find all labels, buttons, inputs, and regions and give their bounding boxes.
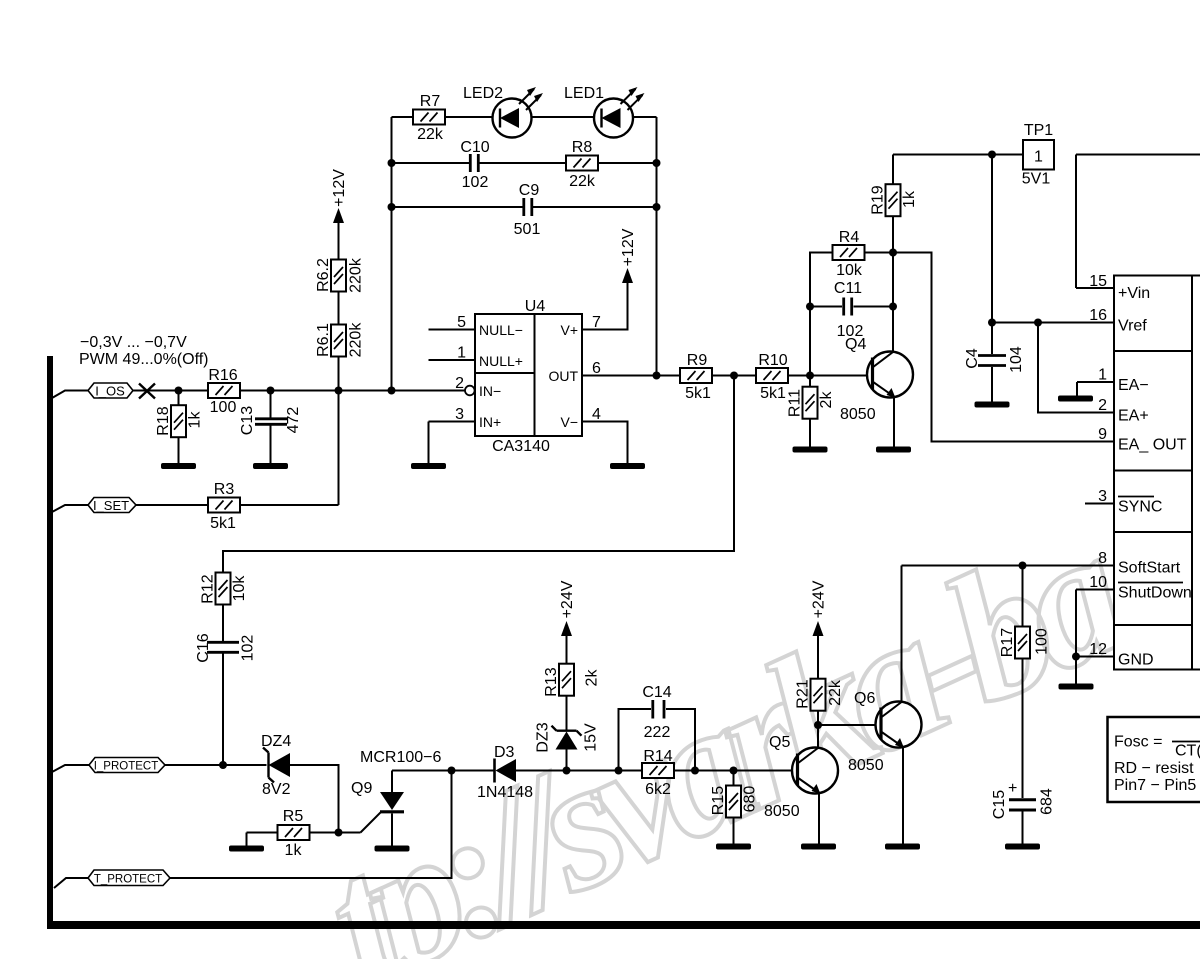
svg-text:+12V: +12V xyxy=(620,228,637,266)
ground pin3 xyxy=(411,463,446,469)
svg-text:222: 222 xyxy=(644,724,671,741)
wire Q6 base xyxy=(818,724,881,726)
svg-text:R16: R16 xyxy=(208,367,237,384)
svg-text:OUT: OUT xyxy=(548,368,578,384)
node junction left bus xyxy=(388,387,396,395)
resistor R7 xyxy=(413,110,445,125)
wire EA+ branch xyxy=(1038,323,1114,413)
ground R15 xyxy=(716,844,751,850)
svg-text:DZ3: DZ3 xyxy=(535,722,552,752)
svg-text:102: 102 xyxy=(240,635,257,662)
svg-text:1k: 1k xyxy=(285,842,303,859)
svg-text:102: 102 xyxy=(462,174,489,191)
svg-text:2: 2 xyxy=(1098,397,1107,414)
pin 6 OUT xyxy=(582,375,680,377)
IC U5 box xyxy=(1114,276,1200,670)
node I_OS flag xyxy=(52,383,133,398)
power +24V arrow (R21) xyxy=(813,621,824,636)
node junctions C9 row xyxy=(388,203,396,211)
capacitor C4 column xyxy=(978,155,1006,403)
wire Q4 emitter drop xyxy=(893,396,895,447)
pin 10 ShutDown xyxy=(1076,590,1114,657)
ground R18 xyxy=(161,463,196,469)
svg-text:TP1: TP1 xyxy=(1024,122,1053,139)
thyristor Q9 MCR100-6 xyxy=(361,771,405,847)
svg-text:R7: R7 xyxy=(420,93,441,110)
svg-text:8050: 8050 xyxy=(840,406,876,423)
note box Fosc xyxy=(1108,717,1200,802)
node junction R6.1/R3 xyxy=(335,387,343,395)
svg-text:V−: V− xyxy=(560,414,578,430)
svg-text:GND: GND xyxy=(1118,652,1154,669)
svg-text:R4: R4 xyxy=(839,229,860,246)
op-amp U4 xyxy=(475,314,582,436)
pin 1 NULL+ xyxy=(429,359,476,361)
resistor R15 xyxy=(726,771,741,845)
svg-text:IN−: IN− xyxy=(479,383,501,399)
pin 4 V- xyxy=(582,422,628,465)
pin 7 V+ xyxy=(582,282,628,330)
resistor R12 xyxy=(216,573,231,642)
node junctions C10 row xyxy=(388,159,396,167)
no-connect X xyxy=(139,384,155,399)
svg-text:R12: R12 xyxy=(200,574,217,603)
svg-text:5V1: 5V1 xyxy=(1022,171,1051,188)
svg-text:IN+: IN+ xyxy=(479,414,501,430)
svg-text:Q9: Q9 xyxy=(351,780,372,797)
LED LED1 xyxy=(594,87,645,138)
wire: right LED bus xyxy=(656,117,658,376)
svg-text:R10: R10 xyxy=(758,352,787,369)
node junction feedback riser xyxy=(730,372,738,380)
node junctions C11/R4 xyxy=(806,303,814,311)
svg-text:Pin7 − Pin5: Pin7 − Pin5 xyxy=(1114,777,1196,794)
diode D3 xyxy=(495,759,517,783)
wire R10 to Q4 base xyxy=(788,375,873,377)
wire: C9 row xyxy=(392,206,657,208)
power +24V arrow (R13) xyxy=(561,621,572,636)
svg-text:R5: R5 xyxy=(283,808,304,825)
resistor R14 xyxy=(642,763,674,778)
ground Q4 xyxy=(876,447,911,453)
wire: feedback net riser to R12 xyxy=(223,376,734,573)
capacitor C13 xyxy=(255,391,287,465)
svg-text:104: 104 xyxy=(1008,346,1025,373)
svg-text:2k: 2k xyxy=(818,391,835,409)
svg-text:6k2: 6k2 xyxy=(645,781,671,798)
wire Vref row xyxy=(992,322,1114,324)
ground pin4 xyxy=(610,463,645,469)
svg-text:10k: 10k xyxy=(836,262,863,279)
svg-text:R15: R15 xyxy=(710,786,727,815)
svg-text:684: 684 xyxy=(1039,788,1056,815)
svg-text:MCR100−6: MCR100−6 xyxy=(360,749,441,766)
capacitor C9 xyxy=(524,198,532,216)
watermark xyxy=(297,489,1153,959)
wire: I_SET net xyxy=(136,504,339,506)
pin 3 IN+ xyxy=(429,422,476,465)
svg-text:R18: R18 xyxy=(155,406,172,435)
ground C15 xyxy=(1005,844,1040,850)
svg-text:+Vin: +Vin xyxy=(1118,285,1150,302)
resistor R13 xyxy=(559,634,574,696)
svg-text:C15: C15 xyxy=(991,790,1008,819)
svg-text:SoftStart: SoftStart xyxy=(1118,560,1181,577)
svg-text:9: 9 xyxy=(1098,426,1107,443)
svg-text:NULL−: NULL− xyxy=(479,322,523,338)
transistor Q4 xyxy=(867,352,913,399)
svg-text:22k: 22k xyxy=(569,173,596,190)
svg-text:C16: C16 xyxy=(195,633,212,662)
svg-text:D3: D3 xyxy=(494,744,515,761)
svg-text:Vref: Vref xyxy=(1118,318,1147,335)
svg-text:2: 2 xyxy=(455,375,464,392)
svg-text:R13: R13 xyxy=(543,667,560,696)
svg-text:15V: 15V xyxy=(583,723,600,752)
ground Q6 xyxy=(885,844,920,850)
svg-text:15: 15 xyxy=(1089,273,1107,290)
wire Q5 emitter drop xyxy=(818,792,820,844)
zener DZ4 xyxy=(263,748,290,783)
svg-text:+12V: +12V xyxy=(331,169,348,207)
svg-text:5k1: 5k1 xyxy=(760,385,786,402)
svg-text:R6.1: R6.1 xyxy=(315,323,332,357)
svg-text:5k1: 5k1 xyxy=(685,385,711,402)
svg-text:SYNC: SYNC xyxy=(1118,499,1162,516)
node junction C13 xyxy=(267,387,275,395)
svg-text:R21: R21 xyxy=(795,679,812,708)
svg-text:1: 1 xyxy=(457,345,466,362)
node junction R11 xyxy=(806,372,814,380)
svg-text:472: 472 xyxy=(285,407,302,434)
svg-text:C11: C11 xyxy=(834,280,862,297)
node junction R18 xyxy=(175,387,183,395)
wire: LED row xyxy=(392,116,657,118)
pin 3 SYNC xyxy=(1085,503,1114,505)
wire: left LED bus xyxy=(391,117,393,391)
resistor R17 xyxy=(1015,566,1030,799)
node junction SoftStart/R17 xyxy=(1019,562,1027,570)
svg-text:8V2: 8V2 xyxy=(262,781,291,798)
ground R5 xyxy=(229,846,264,852)
svg-text:100: 100 xyxy=(210,399,237,416)
wire: I_PROTECT net xyxy=(165,765,339,833)
svg-text:1k: 1k xyxy=(187,411,204,429)
transistor Q5 xyxy=(792,748,838,795)
svg-text:22k: 22k xyxy=(827,679,844,706)
svg-text:3: 3 xyxy=(1098,488,1107,505)
wire R9-R10 xyxy=(712,375,756,377)
wire Q5 collector riser xyxy=(817,725,819,748)
svg-text:220k: 220k xyxy=(348,257,365,293)
svg-text:RD − resist: RD − resist xyxy=(1114,760,1194,777)
svg-text:16: 16 xyxy=(1089,307,1107,324)
resistor R18 xyxy=(171,391,186,465)
svg-text:680: 680 xyxy=(742,786,759,813)
svg-text:T_PROTECT: T_PROTECT xyxy=(94,874,162,886)
svg-text:7: 7 xyxy=(592,314,601,331)
zener DZ3 xyxy=(552,695,582,771)
svg-text:R6.2: R6.2 xyxy=(315,258,332,292)
resistor R6.1 xyxy=(331,325,346,391)
svg-text:R8: R8 xyxy=(572,139,593,156)
svg-text:−0,3V ... −0,7V: −0,3V ... −0,7V xyxy=(80,334,187,351)
svg-text:8050: 8050 xyxy=(764,803,800,820)
power +12V arrow (left) xyxy=(333,208,344,260)
svg-text:I_PROTECT: I_PROTECT xyxy=(94,761,159,773)
svg-text:10: 10 xyxy=(1089,574,1107,591)
svg-text:12: 12 xyxy=(1089,641,1107,658)
svg-text:R3: R3 xyxy=(214,481,235,498)
wire: left border bus (thick) xyxy=(47,356,53,922)
resistor R8 xyxy=(566,156,598,171)
node junction C4 top xyxy=(988,151,996,159)
resistor R3 xyxy=(208,498,240,513)
svg-text:+24V: +24V xyxy=(559,580,576,618)
ground R11 xyxy=(793,447,828,453)
wire: R5 row xyxy=(247,833,361,847)
svg-text:R9: R9 xyxy=(687,352,708,369)
svg-text:+24V: +24V xyxy=(811,580,828,618)
ground Q9 xyxy=(375,846,410,852)
svg-text:220k: 220k xyxy=(348,322,365,358)
power +12V arrow (V+) xyxy=(622,268,633,283)
svg-text:C9: C9 xyxy=(519,182,540,199)
pin 5 NULL- xyxy=(429,329,476,331)
svg-text:8050: 8050 xyxy=(848,757,884,774)
svg-text:4: 4 xyxy=(592,406,601,423)
svg-text:+: + xyxy=(1008,780,1017,797)
svg-text:C13: C13 xyxy=(239,406,256,435)
wire +Vin riser xyxy=(1076,155,1200,289)
capacitor C16 xyxy=(207,642,239,765)
ground Q5 xyxy=(801,844,836,850)
resistor R5 xyxy=(278,825,310,840)
resistor R4 xyxy=(833,245,865,260)
pin 12 GND xyxy=(1076,657,1114,685)
svg-text:EA+: EA+ xyxy=(1118,408,1149,425)
svg-text:R11: R11 xyxy=(787,389,804,417)
svg-text:I_SET: I_SET xyxy=(93,498,129,513)
svg-text:6: 6 xyxy=(592,360,601,377)
wire R19 top to TP1 xyxy=(893,154,1023,156)
capacitor C11 xyxy=(810,298,893,316)
wire: T_PROTECT riser xyxy=(170,771,452,879)
resistor R10 xyxy=(756,368,788,383)
wire: bottom border (thick) xyxy=(47,921,1200,929)
svg-text:10k: 10k xyxy=(231,575,248,602)
svg-text:Q6: Q6 xyxy=(854,690,875,707)
svg-text:U4: U4 xyxy=(525,298,546,315)
svg-text:Fosc =: Fosc = xyxy=(1114,734,1162,751)
node junction OUT/bus xyxy=(653,372,661,380)
svg-text:LED2: LED2 xyxy=(463,85,503,102)
ground C4 xyxy=(975,402,1010,408)
svg-text:R19: R19 xyxy=(870,185,887,214)
resistor R9 xyxy=(680,368,712,383)
svg-text:NULL+: NULL+ xyxy=(479,353,523,369)
svg-text:1N4148: 1N4148 xyxy=(477,784,533,801)
svg-text:1: 1 xyxy=(1034,149,1043,166)
svg-text:5k1: 5k1 xyxy=(210,515,236,532)
ground EA- xyxy=(1058,396,1093,402)
svg-text:1: 1 xyxy=(1098,367,1107,384)
LED LED2 xyxy=(493,87,544,138)
pin 8 SoftStart xyxy=(902,565,1115,567)
svg-text:DZ4: DZ4 xyxy=(261,733,291,750)
wire EA_OUT feedback xyxy=(893,253,1114,442)
wire Q4 collector riser xyxy=(892,253,894,352)
svg-text:C14: C14 xyxy=(642,684,671,701)
svg-text:2k: 2k xyxy=(584,669,601,687)
node I_SET flag xyxy=(52,498,136,513)
svg-text:EA_ OUT: EA_ OUT xyxy=(1118,437,1187,454)
node T_PROTECT flag xyxy=(54,870,170,888)
wire: I_OS net horizontal xyxy=(133,390,466,392)
svg-text:1k: 1k xyxy=(901,190,918,208)
svg-text:ShutDown: ShutDown xyxy=(1118,585,1192,602)
wire Q6 collector riser xyxy=(901,566,903,703)
svg-text:V+: V+ xyxy=(560,322,578,338)
svg-text:102: 102 xyxy=(837,323,864,340)
wire Q6 emitter drop xyxy=(902,746,904,844)
capacitor C10 xyxy=(470,154,478,172)
svg-text:C4: C4 xyxy=(964,348,981,369)
ground C13 xyxy=(253,463,288,469)
svg-text:LED1: LED1 xyxy=(564,85,604,102)
svg-text:C10: C10 xyxy=(460,139,489,156)
transistor Q6 xyxy=(876,702,922,749)
wire R4 branch xyxy=(810,253,893,376)
svg-text:22k: 22k xyxy=(417,126,444,143)
svg-text:Q5: Q5 xyxy=(769,734,790,751)
svg-text:R14: R14 xyxy=(643,748,672,765)
svg-text:EA−: EA− xyxy=(1118,377,1149,394)
svg-text:CT(: CT( xyxy=(1175,743,1200,760)
svg-text:3: 3 xyxy=(455,406,464,423)
pin 2 IN- bubble xyxy=(465,386,475,396)
svg-text:PWM 49...0%(Off): PWM 49...0%(Off) xyxy=(79,351,209,368)
wire EA- to ground xyxy=(1077,382,1114,396)
wire: C10/R8 row xyxy=(392,162,657,164)
svg-text:CA3140: CA3140 xyxy=(492,438,550,455)
testpoint TP1 xyxy=(1023,140,1054,170)
wire: Q9 anode row xyxy=(392,770,798,772)
resistor R11 xyxy=(803,376,818,448)
wire: R3 riser to I_OS net xyxy=(338,391,340,506)
svg-text:501: 501 xyxy=(514,221,541,238)
svg-text:100: 100 xyxy=(1034,628,1051,655)
svg-text:R17: R17 xyxy=(999,628,1016,657)
node I_PROTECT flag xyxy=(52,758,165,773)
svg-text:8: 8 xyxy=(1098,550,1107,567)
svg-text:5: 5 xyxy=(457,314,466,331)
resistor R19 xyxy=(886,155,901,253)
capacitor C15 polarized xyxy=(1009,800,1036,844)
resistor R16 xyxy=(208,383,240,398)
svg-text:I_OS: I_OS xyxy=(95,384,125,399)
capacitor C14 bypass xyxy=(619,700,696,771)
ground pin12 xyxy=(1059,684,1094,690)
resistor R21 xyxy=(811,634,826,725)
resistor R6.2 xyxy=(331,260,346,325)
